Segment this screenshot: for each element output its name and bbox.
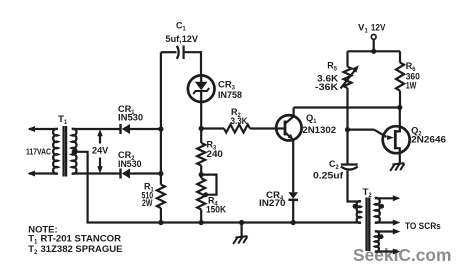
svg-text:5: 5 (334, 66, 338, 73)
svg-text:2: 2 (34, 249, 38, 256)
svg-text:1: 1 (34, 239, 38, 246)
svg-text:1: 1 (64, 119, 68, 126)
svg-text:2: 2 (369, 192, 373, 199)
svg-text:IN758: IN758 (218, 90, 242, 100)
svg-text:0.25uf: 0.25uf (313, 171, 344, 181)
svg-text:RT-201 STANCOR: RT-201 STANCOR (41, 233, 122, 244)
svg-text:IN530: IN530 (118, 113, 143, 123)
svg-text:240: 240 (207, 149, 223, 159)
svg-text:2W: 2W (142, 198, 153, 208)
svg-text:CR: CR (218, 80, 232, 90)
svg-text:1W: 1W (406, 81, 417, 91)
svg-text:31Z382 SPRAGUE: 31Z382 SPRAGUE (41, 243, 123, 254)
svg-text:1: 1 (183, 26, 187, 33)
svg-text:2N2646: 2N2646 (411, 135, 446, 145)
svg-text:Q: Q (306, 113, 313, 123)
svg-text:12V: 12V (371, 23, 386, 33)
svg-text:5uf,12V: 5uf,12V (166, 34, 199, 44)
svg-text:150K: 150K (206, 205, 226, 215)
svg-text:-36K: -36K (315, 82, 339, 92)
svg-text:TO SCRs: TO SCRs (405, 221, 441, 231)
svg-text:IN270: IN270 (259, 198, 286, 208)
svg-text:117VAC: 117VAC (26, 147, 51, 157)
svg-text:IN530: IN530 (118, 159, 142, 169)
svg-text:24V: 24V (92, 146, 109, 156)
svg-text:1: 1 (365, 28, 369, 35)
svg-text:2N1302: 2N1302 (302, 125, 336, 135)
svg-text:3.3K: 3.3K (231, 116, 248, 126)
